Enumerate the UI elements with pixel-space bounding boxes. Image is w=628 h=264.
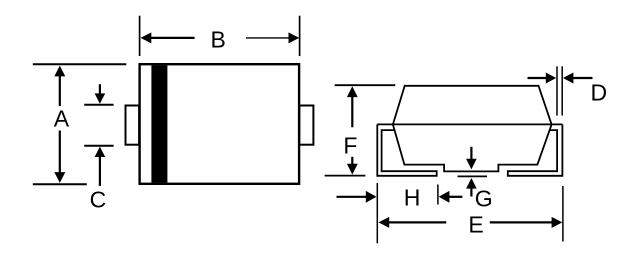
dim H left arrow [337,196,367,198]
dim B left arrow [150,37,195,39]
svg-text:D: D [590,79,607,105]
dim A bottom extension line [33,183,87,185]
dim G up arrow [466,178,477,189]
dim C upper arrow (down) [99,84,101,94]
dim F down arrow [351,157,353,165]
svg-text:F: F [343,133,357,159]
dim C lower arrow (up) [95,147,106,157]
dim F bottom extension line [325,175,366,177]
dim A up arrow [54,66,65,77]
dim B extension line right [299,16,301,56]
dim E right extension line [562,186,564,242]
right terminal tab [299,106,313,145]
cathode band [151,65,167,183]
dim D left arrow [528,77,547,79]
svg-text:C: C [90,186,107,212]
svg-text:A: A [54,106,70,132]
dim B right arrow [246,37,290,39]
dim G down arrow [470,147,472,160]
svg-text:E: E [468,212,483,238]
parting line / lead top [377,123,562,125]
dim C lower extension line [84,145,113,147]
dim F up arrow [347,86,358,97]
seating plane line [458,175,488,177]
molded body (side view) [393,86,552,172]
left lead (side view) [377,124,436,175]
svg-text:G: G [475,186,493,212]
dim A down arrow [59,131,61,174]
dim C upper extension line [84,104,113,106]
dim F top extension line [335,84,396,86]
dim H right arrow [439,191,450,203]
right lead (side view) [508,124,563,175]
dim E left extension line [376,183,378,243]
dim B extension line left [139,16,141,56]
dim D right arrow [563,73,573,84]
svg-text:H: H [404,185,421,211]
diode body (top view) [140,64,300,184]
dim D extension line outer [561,66,563,115]
dim A top extension line [33,63,127,65]
dim D extension line inner [556,66,558,115]
dim E right arrow [490,221,552,223]
dim E left arrow [379,217,390,228]
svg-text:B: B [211,26,226,52]
left terminal tab [126,106,140,145]
dim H right extension line [437,185,439,205]
